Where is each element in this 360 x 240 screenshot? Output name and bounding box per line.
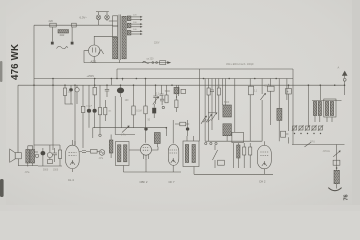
wire vertical x161.5 bbox=[161, 85, 163, 94]
resistor x208.6 bbox=[207, 88, 210, 95]
wire IF1 box bottom to line bbox=[122, 166, 124, 173]
junction dark dot on pot line bbox=[144, 127, 147, 130]
IF1 coil a bbox=[118, 145, 121, 162]
wire chassis bus y85.2 bbox=[18, 84, 345, 86]
AVC diagonal arrow mid bbox=[153, 98, 158, 105]
wire RF coil top line bbox=[312, 99, 342, 101]
slash on box bottom line bbox=[305, 142, 312, 147]
dial lamp La2 bbox=[105, 15, 110, 20]
mixer section verticals bbox=[233, 143, 235, 168]
wire below resistor x65 bbox=[65, 96, 73, 105]
wire bus link x111.4 bbox=[110, 79, 112, 86]
mains transformer T1 secondary winding hatched bbox=[122, 16, 126, 59]
svg-text:AW u.EW-Umsch. 100pF: AW u.EW-Umsch. 100pF bbox=[226, 63, 254, 66]
wire below x94.7 bbox=[94, 113, 96, 128]
RF coil pair A1 bbox=[313, 102, 316, 116]
potentiometer wiper arrow bbox=[122, 126, 129, 132]
switch arrow a bbox=[201, 117, 206, 124]
wire below pot x100 bbox=[99, 128, 101, 134]
svg-text:ca 220: ca 220 bbox=[147, 58, 155, 60]
IF transformer box 2 outline bbox=[183, 141, 199, 167]
wire CL4 bottom bbox=[72, 169, 74, 172]
wire vertical x145.5 to tube bbox=[145, 79, 147, 107]
heater junction circle a bbox=[152, 62, 154, 64]
left edge artifact blob upper bbox=[0, 61, 2, 82]
wire drop x250.2 bbox=[249, 79, 251, 87]
switch arrows small pair bbox=[203, 119, 211, 122]
wire heater line y62.6 bbox=[84, 62, 168, 64]
resistor R barretter hatched bbox=[58, 30, 69, 33]
wire vertical x115.2 bbox=[114, 96, 116, 135]
antenna symbol bbox=[344, 75, 346, 85]
wire switchbank bottom line bbox=[205, 140, 262, 142]
resistor on x166.5 bbox=[165, 95, 168, 103]
resistor on x65 bbox=[63, 88, 66, 96]
IF2 coil a bbox=[185, 145, 188, 163]
capacitor plates x212 bbox=[210, 90, 214, 92]
capacitor plates x161.5 bbox=[160, 94, 164, 96]
ground symbol earth arc bbox=[328, 188, 341, 191]
wire short y134.5 bbox=[115, 134, 135, 136]
output transformer primary hatched bbox=[26, 150, 30, 164]
resistor R mains dropper bbox=[50, 23, 56, 27]
svg-text:CBF 2: CBF 2 bbox=[140, 180, 148, 184]
wire box right edge bbox=[292, 69, 294, 145]
dial lamp La1 bbox=[96, 15, 101, 20]
junction circle x163 bbox=[162, 106, 164, 108]
svg-text:J.Pu: J.Pu bbox=[99, 158, 104, 160]
coil hatched on column bbox=[334, 170, 339, 183]
junction circle small bbox=[35, 154, 38, 157]
wire vertical x308.4 bbox=[307, 85, 309, 127]
capacitor C x107 bbox=[105, 89, 109, 91]
wire AZ1 anode to HT secondary bbox=[94, 36, 117, 45]
wire vertical x121.5 bbox=[121, 97, 123, 128]
wire vertical x71 bbox=[70, 85, 72, 88]
junction circle col c bbox=[215, 142, 217, 144]
wire mains top y25 bbox=[34, 24, 113, 26]
coil on x176 bbox=[176, 85, 178, 87]
wire CF7 bottom bbox=[172, 165, 174, 172]
RF coil pair B1 bbox=[325, 102, 328, 116]
component box mid bbox=[218, 160, 225, 165]
tube CBF2 round bbox=[141, 144, 152, 155]
mains transformer T1 primary box lower bbox=[113, 26, 118, 38]
wire vertical x94.7 bbox=[94, 79, 96, 88]
tube CF7 oval bbox=[168, 144, 179, 165]
switch contact S2 bbox=[71, 42, 74, 45]
small box below pot line bbox=[154, 133, 160, 144]
wire vertical x65 bbox=[64, 85, 66, 88]
wire mid drop bbox=[214, 145, 216, 168]
wire x187.6 bbox=[187, 120, 189, 136]
wire drop x286.9 bbox=[286, 79, 288, 101]
transformer tap coil c bbox=[127, 30, 131, 35]
wire vertical x107 capacitor bbox=[106, 85, 108, 89]
fuse box on mains line bbox=[72, 23, 77, 27]
resistor R x100 bbox=[98, 108, 101, 115]
wire drop x72 bbox=[71, 27, 73, 42]
wire drop x218.8 bbox=[218, 79, 220, 89]
electrolytic dark blob x89 bbox=[87, 109, 91, 113]
wire drop x205.1 bbox=[204, 79, 206, 142]
capacitor box lower x288.5 bbox=[281, 131, 286, 137]
electrolytic dark audio a bbox=[41, 151, 46, 155]
wire bus link x122.5 bbox=[122, 79, 124, 81]
switch arrow on column bbox=[333, 152, 339, 157]
wire box bottom line bbox=[292, 144, 345, 146]
wire vertical x83 bbox=[82, 85, 84, 106]
wire drop x234.8 bbox=[234, 79, 236, 133]
svg-text:220: 220 bbox=[49, 19, 54, 23]
trimmer 2 bbox=[299, 126, 303, 130]
svg-text:220V: 220V bbox=[154, 43, 160, 45]
resistor R x94.7 upper bbox=[93, 87, 96, 95]
wire lamp leads bbox=[99, 12, 108, 26]
svg-text:J.Pa: J.Pa bbox=[25, 171, 30, 174]
tap arrow 3 bbox=[131, 23, 141, 25]
heater junction circle b bbox=[156, 62, 158, 64]
loudspeaker cone bbox=[10, 149, 16, 162]
wire lamp top bus bbox=[96, 11, 109, 13]
wire CBF2 grid left bbox=[129, 149, 141, 151]
wire corner x117 bbox=[116, 69, 118, 79]
AZ1 filament V bbox=[98, 50, 103, 55]
wire vertical x53 bbox=[52, 79, 54, 151]
wire vertical x100 bbox=[99, 85, 101, 107]
wire right column below box bbox=[336, 145, 338, 189]
svg-text:J.Pu: J.Pu bbox=[121, 133, 126, 136]
wire vertical x133.5 bbox=[133, 85, 135, 106]
junction circle col a bbox=[205, 142, 207, 144]
RF coil pair A2 bbox=[318, 102, 321, 116]
svg-text:5000: 5000 bbox=[224, 102, 230, 104]
capacitor cluster x270.7 bbox=[267, 86, 274, 91]
wire audio bottom bbox=[38, 165, 62, 167]
wire x172 down bbox=[173, 94, 176, 144]
heater end arrow bbox=[167, 61, 171, 64]
coupling component box mid-left bbox=[180, 122, 186, 126]
wire vertical x178.3 bbox=[177, 85, 179, 96]
junction circle below pot bbox=[99, 134, 101, 136]
wire CBF2 right bbox=[152, 147, 159, 150]
resistor R x105.3 bbox=[104, 108, 107, 115]
output transformer secondary hatched bbox=[31, 150, 35, 164]
transformer bottom lead bbox=[119, 60, 121, 63]
coupling cap group right of CL4 bbox=[82, 151, 86, 153]
wire below x89 bbox=[88, 113, 90, 128]
wire volume pot line bbox=[93, 127, 167, 129]
heater wavy symbol bbox=[143, 61, 150, 63]
electrolytic dark blob x94.7 bbox=[93, 109, 97, 113]
wire HT bus y78.5 bbox=[34, 78, 293, 80]
wire mixer bottom line bbox=[194, 173, 273, 175]
svg-text:0,1M: 0,1M bbox=[136, 110, 141, 113]
wire below x83 bbox=[82, 113, 84, 149]
mains transformer T1 primary winding hatched bbox=[113, 38, 118, 59]
transformer tap coil a bbox=[127, 16, 131, 21]
AC source circle with wave bbox=[99, 150, 105, 156]
wire pot left end drop bbox=[92, 128, 94, 138]
resistor right of CL4 bbox=[91, 150, 98, 154]
wire drop x212 bbox=[211, 79, 213, 91]
bottom edge shading bbox=[0, 205, 360, 211]
oscillator coil lower hatched bbox=[223, 124, 232, 136]
svg-text:6,3V~: 6,3V~ bbox=[80, 16, 88, 20]
wire short y112.8 bbox=[208, 112, 215, 114]
left margin shading bbox=[0, 0, 6, 211]
wire CCH2 bottom bbox=[263, 169, 265, 175]
wire a bbox=[42, 148, 44, 166]
wire AZ1 bottom lead bbox=[93, 56, 95, 62]
wire b bbox=[49, 145, 51, 160]
electrolytic dark dot x71 bbox=[69, 88, 73, 91]
wire transformer top leads bbox=[28, 146, 33, 150]
wire vertical x89 bbox=[88, 85, 90, 108]
component rect on column bbox=[333, 160, 340, 165]
RF coil box B outline bbox=[324, 99, 336, 117]
loudspeaker coil body bbox=[15, 153, 21, 159]
transformer tap coil b bbox=[127, 23, 131, 28]
svg-text:CL 4: CL 4 bbox=[68, 178, 74, 182]
wire below dot x71 bbox=[70, 92, 72, 105]
tap arrow 6 bbox=[131, 33, 141, 35]
tap arrow 1 bbox=[131, 16, 141, 18]
wire drop x225.7 bbox=[225, 79, 227, 106]
trimmer 4 bbox=[312, 126, 316, 130]
wire vertical x75 to output stage bbox=[74, 85, 76, 145]
wire x166.3 below pot bbox=[165, 128, 167, 136]
svg-text:J.P.U: J.P.U bbox=[310, 141, 316, 144]
svg-text:CF 7: CF 7 bbox=[169, 180, 176, 184]
dark cap x154 bbox=[152, 108, 156, 114]
switch arrow d bbox=[260, 94, 264, 100]
trimmer 1 bbox=[293, 126, 297, 130]
right page-edge shading bbox=[352, 0, 360, 211]
trimmer 5 bbox=[319, 126, 323, 130]
resistor audio d bbox=[58, 150, 61, 158]
component box audio b bbox=[48, 160, 53, 164]
wire CL4 top bbox=[73, 140, 76, 145]
wire x133.5 to pot line bbox=[133, 115, 135, 128]
oscillator coil upper hatched bbox=[223, 105, 232, 117]
svg-text:100: 100 bbox=[68, 91, 73, 94]
junction circle col b bbox=[210, 142, 212, 144]
junction circle audio b bbox=[47, 152, 52, 157]
svg-text:+250V: +250V bbox=[87, 74, 95, 78]
wire box left vertical bbox=[198, 69, 200, 141]
wire coil bottom bbox=[226, 136, 228, 142]
wire drop x270.7 bbox=[270, 79, 272, 87]
wire drop x222.3 bbox=[221, 79, 223, 106]
wire through component bbox=[175, 123, 189, 125]
RF coil pair B2 bbox=[330, 102, 333, 116]
output tube CL4 bbox=[66, 145, 80, 168]
small rect x183 top bbox=[181, 89, 186, 93]
trimmer row bbox=[292, 125, 323, 134]
capacitor audio c plates bbox=[53, 153, 58, 155]
junction dots bus2 bbox=[33, 84, 345, 86]
IF1 coil b bbox=[124, 145, 127, 162]
capacitor block on x83 bbox=[81, 106, 85, 112]
wire vertical x155.5 bbox=[155, 85, 157, 96]
junction dot pot right end bbox=[166, 127, 168, 129]
coil x279.2 hatched bbox=[277, 108, 282, 120]
svg-text:476 WK: 476 WK bbox=[10, 44, 21, 80]
capacitor plates x155.5 bbox=[153, 96, 157, 98]
resistor x176 bbox=[175, 100, 178, 108]
capacitor plates x162 bbox=[160, 96, 164, 106]
coil A leads bbox=[315, 116, 332, 123]
wire transformer bottom leads bbox=[28, 163, 33, 167]
resistor x250.2 bbox=[249, 86, 254, 95]
wire drop x262.1 bbox=[261, 79, 263, 95]
wire IF2 right lead down bbox=[193, 167, 195, 175]
svg-text:CH 2: CH 2 bbox=[259, 180, 266, 184]
resistor mixer a bbox=[243, 147, 246, 155]
wire drop x215.4 bbox=[214, 79, 216, 114]
svg-text:2x8µF: 2x8µF bbox=[86, 105, 93, 107]
coil mixer bbox=[237, 145, 240, 158]
electrolytic cap right bbox=[288, 85, 290, 88]
tap arrow 5 bbox=[131, 30, 141, 32]
tap arrow 4 bbox=[131, 26, 141, 28]
wire audio cluster top rail bbox=[34, 144, 60, 146]
wire speaker drop lower bbox=[18, 159, 38, 166]
wire vertical x34 bbox=[33, 25, 35, 152]
IF transformer box 1 outline bbox=[116, 142, 130, 166]
left edge artifact blob lower bbox=[0, 179, 4, 197]
resistor x218.8 bbox=[217, 88, 220, 95]
mains transformer T1 core bbox=[119, 15, 120, 61]
resistor R x133.5 bbox=[132, 106, 135, 115]
dark dot x187.6 bbox=[186, 127, 189, 130]
resistor on x145.5 bbox=[144, 106, 147, 114]
wire bottom audio line y172 bbox=[123, 171, 181, 173]
trimmer 3 bbox=[306, 126, 310, 130]
svg-text:4Ω2: 4Ω2 bbox=[60, 33, 65, 37]
svg-text:J.P.Um: J.P.Um bbox=[323, 150, 331, 153]
wire screen line y69 bbox=[117, 68, 293, 70]
glow lamp wavy symbol bbox=[57, 46, 69, 49]
wire AZ1 left lead bbox=[84, 51, 89, 63]
tap arrow 2 bbox=[131, 19, 141, 21]
switch contact S1 bbox=[51, 42, 54, 45]
heater box component bbox=[160, 61, 166, 65]
switch arrow c bbox=[211, 114, 216, 121]
junction open circle x77 bbox=[75, 88, 79, 92]
junction dot column bbox=[336, 167, 338, 169]
IF coil feeding CL4 bbox=[110, 135, 112, 141]
wire drop x208.6 bbox=[208, 79, 210, 89]
wire middle x94.7 bbox=[94, 95, 96, 109]
svg-text:4m: 4m bbox=[108, 111, 111, 113]
switch arrow b bbox=[206, 115, 211, 122]
wire drop x279.2 bbox=[278, 79, 280, 109]
svg-text:5000: 5000 bbox=[43, 170, 49, 172]
wire drop to switch bbox=[51, 27, 53, 42]
svg-text:A: A bbox=[338, 66, 340, 70]
resistor mixer b bbox=[249, 147, 252, 155]
svg-text:+: + bbox=[287, 90, 289, 94]
wire chassis left drop bbox=[17, 85, 19, 152]
wire CCH2 top bbox=[263, 141, 265, 145]
svg-text:76: 76 bbox=[344, 194, 350, 200]
band switch slash mid bbox=[213, 150, 218, 160]
junction dots bus1 bbox=[52, 78, 277, 80]
svg-text:4000: 4000 bbox=[264, 86, 270, 88]
electrolytic capacitor dark blob bbox=[120, 85, 122, 87]
svg-text:1500: 1500 bbox=[53, 170, 59, 172]
wire CBF2 cathode down bbox=[145, 160, 147, 173]
mains transformer T1 primary box upper bbox=[113, 16, 118, 26]
rectifier tube AZ1 bbox=[89, 45, 100, 56]
tube CCH2 oval bbox=[257, 145, 271, 168]
wire vertical x166.5 bbox=[166, 85, 168, 95]
wire vertical x320.3 bbox=[319, 85, 321, 100]
wire x34 into audio bbox=[34, 151, 38, 153]
svg-text:5000: 5000 bbox=[165, 91, 171, 93]
IF2 coil b bbox=[192, 145, 195, 163]
wire IF2 leads bbox=[187, 136, 194, 141]
open box mid bottom bbox=[232, 132, 244, 142]
